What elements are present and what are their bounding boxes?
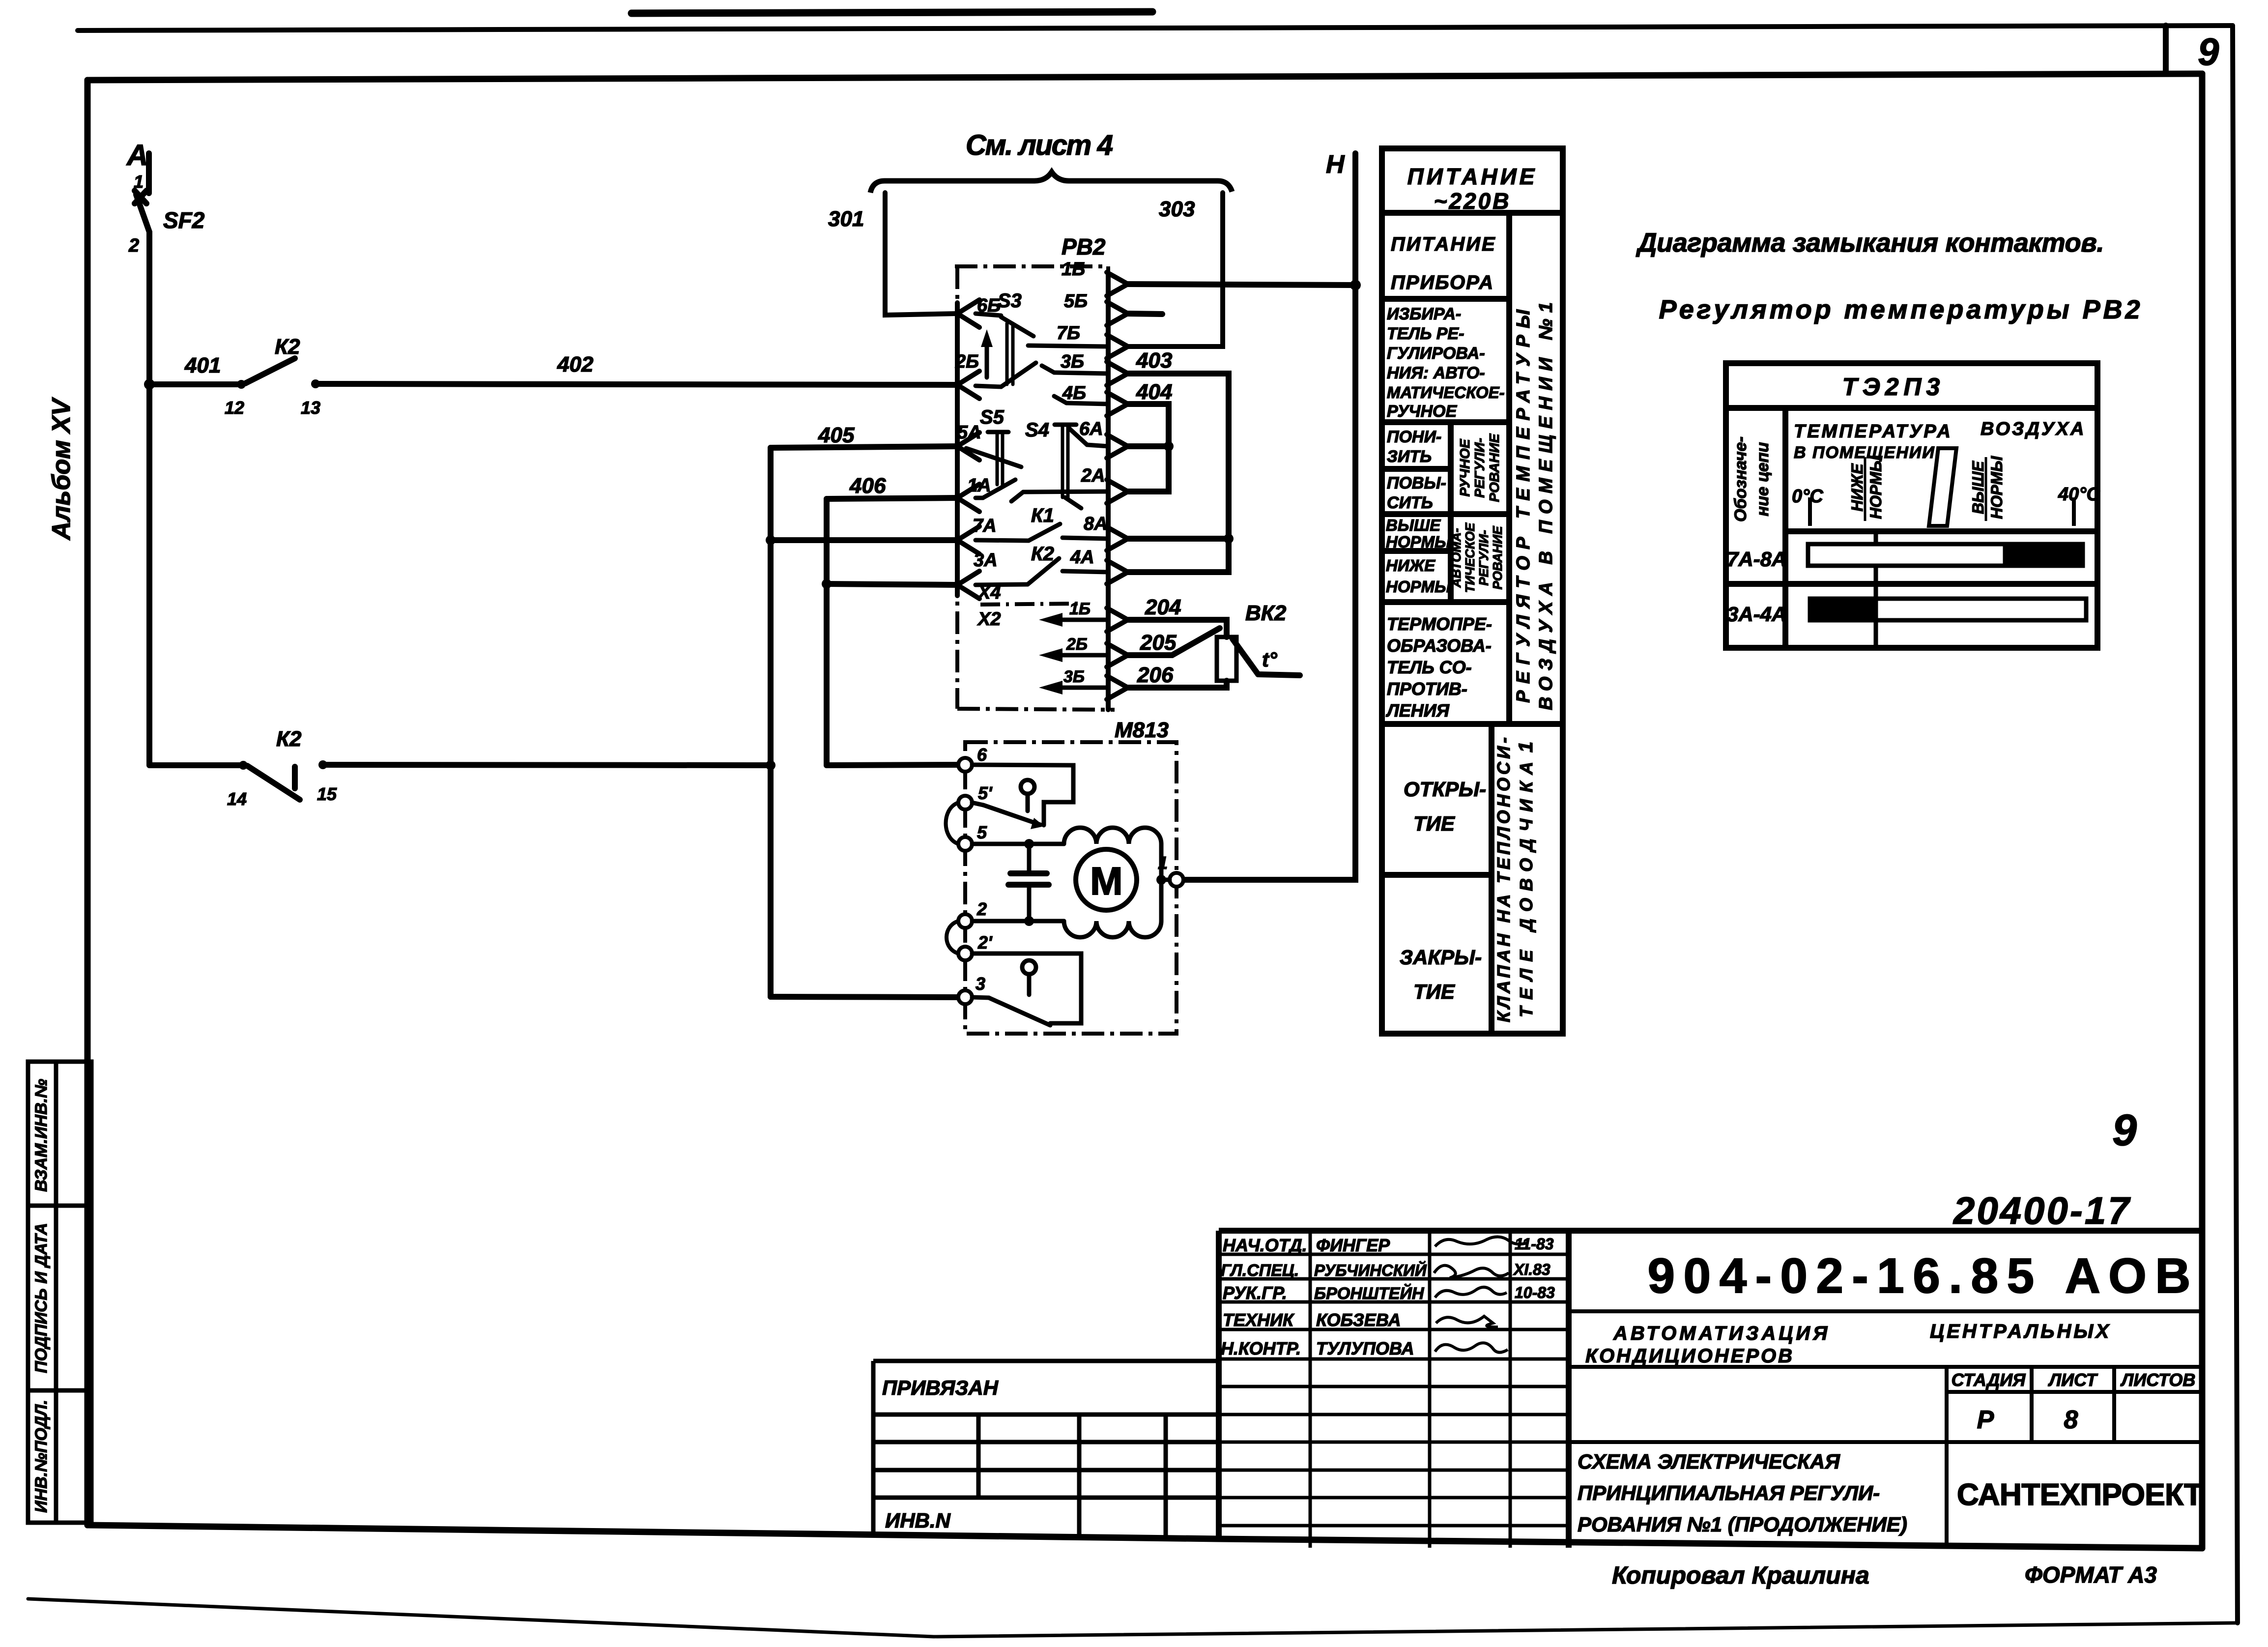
svg-text:2Б: 2Б bbox=[1066, 635, 1088, 654]
wire 4Б / 404 bbox=[1126, 404, 1169, 491]
7Б inner stub bbox=[1028, 346, 1108, 347]
РВ2 connector edge lines bbox=[957, 275, 1108, 710]
junction 405/7А bbox=[766, 535, 775, 545]
wire 405 stub bbox=[771, 446, 957, 448]
svg-text:САНТЕХПРОЕКТ: САНТЕХПРОЕКТ bbox=[1957, 1478, 2203, 1512]
svg-text:5Б: 5Б bbox=[1064, 291, 1088, 312]
РВ2 right side wiring bbox=[1126, 284, 1355, 572]
wire 5Б stub bbox=[1126, 314, 1162, 314]
capacitor bbox=[1008, 839, 1049, 926]
svg-text:3А: 3А bbox=[974, 550, 998, 571]
svg-text:3Б: 3Б bbox=[1061, 351, 1084, 372]
svg-text:3А-4А: 3А-4А bbox=[1727, 603, 1786, 626]
svg-text:НОРМЫ: НОРМЫ bbox=[1386, 533, 1451, 551]
contact К1 blade bbox=[1029, 524, 1060, 541]
svg-text:Р: Р bbox=[1977, 1406, 1994, 1434]
sensor circuit 204/205/206 bbox=[1126, 620, 1300, 688]
svg-text:Копировал Краилина: Копировал Краилина bbox=[1612, 1561, 1869, 1589]
РВ2 right connector chevrons bbox=[1107, 272, 1128, 699]
svg-text:ТЕРМОПРЕ-: ТЕРМОПРЕ- bbox=[1387, 614, 1492, 634]
wire 3А bbox=[827, 584, 957, 585]
svg-text:СИТЬ: СИТЬ bbox=[1387, 493, 1433, 512]
svg-text:НОРМЫ: НОРМЫ bbox=[1867, 456, 1885, 519]
М813 enclosure dash-dot bbox=[965, 742, 1177, 1034]
svg-text:402: 402 bbox=[557, 352, 594, 376]
svg-text:ГЛ.СПЕЦ.: ГЛ.СПЕЦ. bbox=[1221, 1261, 1299, 1280]
svg-text:7Б: 7Б bbox=[1057, 323, 1080, 344]
wire from SF2 pin 2 down to bottom rail bbox=[149, 232, 243, 765]
2Б selector blade bbox=[1001, 363, 1036, 387]
svg-text:М: М bbox=[1090, 859, 1123, 903]
resistor ВК2 body bbox=[1217, 637, 1236, 681]
left column attribute boxes bbox=[28, 1062, 91, 1523]
svg-text:301: 301 bbox=[828, 207, 864, 231]
svg-text:t°: t° bbox=[1262, 648, 1278, 671]
svg-text:12: 12 bbox=[225, 398, 244, 418]
contact K2 14-15 terminal dots bbox=[239, 761, 248, 770]
wire to M813 terminal 6 bbox=[827, 765, 959, 765]
svg-text:КОБЗЕВА: КОБЗЕВА bbox=[1316, 1310, 1401, 1330]
contact К2 blade bbox=[1028, 558, 1059, 584]
svg-text:РУБЧИНСКИЙ: РУБЧИНСКИЙ bbox=[1314, 1261, 1427, 1279]
М813 terminals bbox=[958, 758, 1183, 1004]
sensor feed arrows bbox=[1039, 613, 1109, 694]
svg-text:ВЫШЕ: ВЫШЕ bbox=[1386, 516, 1441, 534]
svg-text:К2: К2 bbox=[1031, 543, 1054, 565]
svg-text:ТИЕ: ТИЕ bbox=[1413, 812, 1456, 835]
svg-text:НОРМЫ: НОРМЫ bbox=[1386, 578, 1451, 596]
selector direction arrow at 2Б bbox=[985, 342, 989, 377]
S3 linkage bars bbox=[1005, 323, 1009, 384]
svg-text:ТЕМПЕРАТУРА: ТЕМПЕРАТУРА bbox=[1794, 421, 1952, 442]
svg-text:ОТКРЫ-: ОТКРЫ- bbox=[1404, 778, 1486, 801]
svg-text:ЛЕНИЯ: ЛЕНИЯ bbox=[1385, 700, 1450, 721]
svg-text:3: 3 bbox=[976, 974, 985, 994]
svg-text:ИНВ.N: ИНВ.N bbox=[885, 1509, 951, 1532]
drawing frame top edge bbox=[87, 74, 2202, 80]
svg-text:ние цепи: ние цепи bbox=[1753, 442, 1772, 516]
Привязан table bbox=[873, 1361, 1219, 1539]
svg-text:Регулятор температуры РВ: Регулятор температуры РВ2 bbox=[1659, 295, 2143, 324]
svg-text:ЛИСТ: ЛИСТ bbox=[2047, 1370, 2098, 1390]
norm divider line bbox=[1874, 531, 1878, 648]
svg-text:РОВАНИЕ: РОВАНИЕ bbox=[1490, 526, 1505, 590]
S4 crossbar bbox=[1055, 423, 1076, 427]
wire 6А bbox=[1126, 443, 1169, 449]
svg-text:406: 406 bbox=[849, 474, 886, 498]
svg-text:Н: Н bbox=[1326, 150, 1345, 179]
svg-text:XI.83: XI.83 bbox=[1513, 1261, 1550, 1278]
svg-text:МАТИЧЕСКОЕ-: МАТИЧЕСКОЕ- bbox=[1387, 383, 1505, 402]
lower limit switch bbox=[972, 954, 1081, 1025]
2Б common wire bbox=[976, 386, 1001, 387]
svg-text:ПИТАНИЕ: ПИТАНИЕ bbox=[1391, 233, 1496, 255]
svg-text:К2: К2 bbox=[275, 335, 300, 359]
svg-text:ЦЕНТРАЛЬНЫХ: ЦЕНТРАЛЬНЫХ bbox=[1930, 1321, 2111, 1342]
S4 stem bbox=[1061, 425, 1064, 497]
sheet top scan artifact bar bbox=[632, 12, 1152, 13]
stamp signatures bbox=[1434, 1237, 1528, 1352]
svg-text:1Б: 1Б bbox=[1062, 259, 1085, 280]
svg-text:ТЭ2П3: ТЭ2П3 bbox=[1842, 373, 1945, 401]
svg-text:Обозначе-: Обозначе- bbox=[1731, 436, 1750, 522]
wire 205 bbox=[1126, 652, 1172, 658]
svg-text:ЗАКРЫ-: ЗАКРЫ- bbox=[1400, 946, 1482, 969]
junction 403/8А bbox=[1224, 534, 1234, 544]
upper limit switch bbox=[972, 765, 1073, 829]
svg-text:303: 303 bbox=[1159, 197, 1195, 221]
sheet top edge line bbox=[78, 26, 2233, 30]
stamp outer box bbox=[1219, 1231, 2202, 1548]
svg-text:40°С: 40°С bbox=[2058, 484, 2100, 505]
2А inner wire bbox=[1023, 491, 1108, 492]
S5 blade from 5А bbox=[966, 448, 1021, 467]
svg-text:ФИНГЕР: ФИНГЕР bbox=[1316, 1235, 1390, 1255]
wire 406 stub bbox=[827, 498, 957, 499]
svg-text:1Б: 1Б bbox=[1069, 600, 1091, 618]
svg-text:0°С: 0°С bbox=[1792, 486, 1823, 507]
svg-text:ЛИСТОВ: ЛИСТОВ bbox=[2120, 1370, 2196, 1390]
net N vertical bbox=[1177, 153, 1361, 880]
svg-text:М813: М813 bbox=[1115, 718, 1169, 742]
svg-text:6: 6 bbox=[977, 745, 987, 765]
svg-text:РОВАНИЕ: РОВАНИЕ bbox=[1487, 433, 1502, 502]
svg-text:РВ2: РВ2 bbox=[1062, 234, 1106, 260]
svg-text:РУЧНОЕ: РУЧНОЕ bbox=[1457, 438, 1472, 496]
3А inner wire bbox=[976, 584, 1028, 585]
sheet right edge line bbox=[2233, 26, 2238, 1623]
page number box top right bbox=[2163, 26, 2169, 74]
svg-text:ПРИВЯЗАН: ПРИВЯЗАН bbox=[882, 1376, 999, 1399]
svg-text:ТИЧЕСКОЕ: ТИЧЕСКОЕ bbox=[1463, 522, 1477, 593]
svg-text:К1: К1 bbox=[1031, 505, 1054, 526]
svg-text:ПОДПИСЬ И ДАТА: ПОДПИСЬ И ДАТА bbox=[32, 1223, 51, 1373]
function table grid bbox=[1382, 148, 1563, 1034]
junction 404/6А bbox=[1164, 441, 1174, 451]
svg-text:РОВАНИЯ №1 (ПРОДОЛЖЕНИЕ): РОВАНИЯ №1 (ПРОДОЛЖЕНИЕ) bbox=[1578, 1513, 1907, 1536]
svg-text:2Б: 2Б bbox=[955, 351, 979, 372]
node A terminal stub bbox=[146, 153, 152, 193]
S4 stem foot link bbox=[1065, 497, 1081, 508]
setpoint parallelogram bbox=[1929, 448, 1956, 526]
wire 8А bbox=[1126, 536, 1229, 542]
svg-text:20400-17: 20400-17 bbox=[1952, 1189, 2131, 1232]
drawing frame bottom edge bbox=[87, 1525, 2202, 1548]
svg-text:~220В: ~220В bbox=[1434, 188, 1511, 214]
svg-text:206: 206 bbox=[1137, 663, 1174, 687]
wire 401 bbox=[149, 381, 241, 387]
svg-text:К2: К2 bbox=[276, 727, 302, 751]
contact K2 12-13 terminal dots bbox=[237, 380, 246, 389]
stamp dividers right part bbox=[1569, 1311, 2202, 1548]
РВ2 interior switch gear bbox=[966, 314, 1108, 585]
drawing frame left edge bbox=[85, 80, 91, 1525]
svg-text:А: А bbox=[126, 139, 148, 172]
svg-text:КОНДИЦИОНЕРОВ: КОНДИЦИОНЕРОВ bbox=[1585, 1345, 1794, 1367]
svg-text:904-02-16.85 АОВ: 904-02-16.85 АОВ bbox=[1648, 1248, 2191, 1303]
wire 301 bbox=[885, 193, 957, 315]
svg-text:15: 15 bbox=[317, 784, 337, 804]
svg-text:ПРИБОРА: ПРИБОРА bbox=[1391, 272, 1494, 293]
svg-text:1: 1 bbox=[1515, 742, 1537, 752]
svg-text:204: 204 bbox=[1145, 595, 1181, 619]
table ТЭ2П3 grid bbox=[1726, 363, 2097, 648]
РВ2 left connector chevrons bbox=[957, 300, 979, 599]
svg-text:ИЗБИРА-: ИЗБИРА- bbox=[1387, 305, 1461, 323]
svg-text:ПИТАНИЕ: ПИТАНИЕ bbox=[1407, 164, 1538, 189]
svg-text:ВЗАМ.ИНВ.№: ВЗАМ.ИНВ.№ bbox=[32, 1079, 51, 1192]
svg-text:ВК2: ВК2 bbox=[1245, 601, 1287, 625]
junction at wire 401 bbox=[144, 379, 155, 390]
3Б inner stub bbox=[1054, 373, 1108, 374]
svg-text:404: 404 bbox=[1136, 380, 1172, 404]
net 405 riser bbox=[768, 448, 774, 997]
S5 crossbar bbox=[988, 430, 1008, 434]
svg-text:НАЧ.ОТД.: НАЧ.ОТД. bbox=[1223, 1235, 1307, 1255]
svg-text:205: 205 bbox=[1140, 631, 1177, 655]
svg-text:См. лист 4: См. лист 4 bbox=[966, 129, 1113, 161]
4А inner stub bbox=[1062, 571, 1108, 572]
wire to M813 terminal 3 bbox=[771, 997, 959, 997]
svg-text:401: 401 bbox=[184, 353, 221, 377]
contact K2 12-13 blade bbox=[245, 358, 295, 383]
svg-text:11-83: 11-83 bbox=[1515, 1235, 1554, 1253]
svg-text:14: 14 bbox=[227, 789, 247, 809]
svg-text:ТИЕ: ТИЕ bbox=[1413, 980, 1456, 1003]
stamp signature grid bbox=[1219, 1231, 1569, 1548]
svg-text:2А: 2А bbox=[1081, 465, 1105, 486]
fraction bar ВЫШЕ НОРМЫ bbox=[1985, 457, 1987, 521]
motor supply wires and windings bbox=[972, 828, 1170, 937]
svg-text:405: 405 bbox=[818, 423, 855, 447]
svg-text:Диаграмма замыкания контакто: Диаграмма замыкания контактов. bbox=[1636, 228, 2107, 258]
svg-text:ПОВЫ-: ПОВЫ- bbox=[1387, 474, 1446, 492]
svg-text:6А: 6А bbox=[1079, 419, 1103, 439]
svg-text:ОБРАЗОВА-: ОБРАЗОВА- bbox=[1387, 636, 1492, 656]
sheet bottom edge line bbox=[28, 1599, 2236, 1637]
svg-text:ТУЛУПОВА: ТУЛУПОВА bbox=[1316, 1338, 1414, 1358]
svg-text:РУЧНОЕ: РУЧНОЕ bbox=[1387, 402, 1457, 421]
svg-text:2: 2 bbox=[976, 899, 987, 919]
svg-text:9: 9 bbox=[2198, 30, 2219, 73]
svg-text:S3: S3 bbox=[998, 290, 1022, 312]
svg-text:ФОРМАТ А3: ФОРМАТ А3 bbox=[2025, 1562, 2157, 1588]
svg-text:ПРОТИВ-: ПРОТИВ- bbox=[1387, 679, 1467, 699]
wire 206 bbox=[1126, 681, 1227, 688]
svg-text:X2: X2 bbox=[977, 609, 1001, 630]
svg-text:10-83: 10-83 bbox=[1515, 1284, 1555, 1301]
1А wire and blade bbox=[976, 496, 983, 500]
breaker SF2 cross mark bbox=[135, 191, 146, 203]
svg-text:АВТОМАТИЗАЦИЯ: АВТОМАТИЗАЦИЯ bbox=[1613, 1323, 1830, 1344]
terminal jumper 2-2' bbox=[947, 921, 958, 954]
brace see sheet 4 bbox=[870, 172, 1232, 193]
svg-text:7А: 7А bbox=[973, 516, 997, 536]
junction 406/3А bbox=[822, 579, 832, 589]
4Б inner stub bbox=[1066, 403, 1108, 404]
wire 303 bbox=[1126, 193, 1223, 347]
svg-text:ТЕЛЬ РЕ-: ТЕЛЬ РЕ- bbox=[1387, 324, 1464, 343]
svg-text:ТЕЛЬ СО-: ТЕЛЬ СО- bbox=[1387, 657, 1472, 677]
svg-text:5А: 5А bbox=[957, 422, 981, 443]
svg-text:1: 1 bbox=[134, 172, 144, 192]
РВ2 enclosure dash-dot bbox=[955, 266, 1115, 710]
bottom rail wire from K2 15 to net 405 riser bbox=[323, 765, 771, 765]
svg-text:S5: S5 bbox=[980, 406, 1005, 428]
svg-text:2': 2' bbox=[977, 932, 993, 953]
junction 405/bottom rail bbox=[766, 760, 775, 770]
wire 402 bbox=[316, 384, 957, 385]
svg-text:ПРИНЦИПИАЛЬНАЯ РЕГУЛИ-: ПРИНЦИПИАЛЬНАЯ РЕГУЛИ- bbox=[1578, 1481, 1880, 1504]
svg-text:ТЕЛЕ ДОВОДЧИКА: ТЕЛЕ ДОВОДЧИКА bbox=[1516, 762, 1536, 1017]
net 406 riser bbox=[824, 499, 830, 765]
motor М bbox=[1076, 849, 1137, 910]
ВК2 wiper arm bbox=[1172, 628, 1220, 655]
svg-text:3Б: 3Б bbox=[1063, 667, 1085, 686]
svg-text:НИЖЕ: НИЖЕ bbox=[1848, 463, 1866, 512]
svg-text:АВТОМА-: АВТОМА- bbox=[1449, 528, 1464, 588]
svg-text:8: 8 bbox=[2064, 1406, 2078, 1434]
svg-text:НОРМЫ: НОРМЫ bbox=[1988, 456, 2006, 519]
svg-text:РЕГУЛИ-: РЕГУЛИ- bbox=[1476, 530, 1491, 585]
scale tick 40 bbox=[2072, 497, 2076, 526]
bar 7А-8А bbox=[1808, 544, 2083, 566]
fraction bar НИЖЕ НОРМЫ bbox=[1864, 457, 1866, 521]
svg-text:Н.КОНТР.: Н.КОНТР. bbox=[1221, 1338, 1301, 1358]
6А inner blade bbox=[1069, 429, 1087, 445]
svg-text:ИНВ.№ПОДЛ.: ИНВ.№ПОДЛ. bbox=[32, 1400, 51, 1513]
svg-text:РУК.ГР.: РУК.ГР. bbox=[1223, 1283, 1287, 1303]
svg-text:8А: 8А bbox=[1084, 514, 1108, 534]
svg-text:S4: S4 bbox=[1025, 419, 1049, 441]
svg-text:РЕГУЛИ-: РЕГУЛИ- bbox=[1472, 438, 1487, 498]
svg-text:ВЫШЕ: ВЫШЕ bbox=[1969, 460, 1987, 514]
svg-text:СХЕМА ЭЛЕКТРИЧЕСКАЯ: СХЕМА ЭЛЕКТРИЧЕСКАЯ bbox=[1578, 1450, 1840, 1473]
drawing frame right edge bbox=[2199, 74, 2206, 1548]
7А inner wire bbox=[976, 540, 1029, 541]
svg-text:9: 9 bbox=[2112, 1106, 2137, 1155]
S5 stem bbox=[996, 432, 999, 485]
8А inner stub bbox=[1062, 538, 1108, 539]
svg-text:13: 13 bbox=[301, 398, 320, 418]
breaker SF2 blade bbox=[136, 195, 149, 232]
svg-text:ВОЗДУХА В ПОМЕЩЕНИИ №1: ВОЗДУХА В ПОМЕЩЕНИИ №1 bbox=[1536, 302, 1556, 710]
svg-text:4А: 4А bbox=[1070, 547, 1094, 568]
connector X4/X2 divider bbox=[980, 604, 1079, 605]
svg-text:ЗИТЬ: ЗИТЬ bbox=[1387, 447, 1432, 466]
S3 common wire from 6Б bbox=[976, 314, 1001, 316]
svg-text:БРОНШТЕЙН: БРОНШТЕЙН bbox=[1314, 1284, 1425, 1303]
svg-text:НИЖЕ: НИЖЕ bbox=[1386, 556, 1435, 575]
wire 204 bbox=[1126, 620, 1227, 637]
terminal jumper 5'-5 bbox=[946, 803, 959, 844]
svg-text:SF2: SF2 bbox=[163, 207, 205, 233]
svg-text:403: 403 bbox=[1136, 348, 1172, 373]
svg-text:НИЯ: АВТО-: НИЯ: АВТО- bbox=[1387, 364, 1485, 382]
wire 1Б to N bbox=[1126, 284, 1355, 285]
svg-text:ВОЗДУХА: ВОЗДУХА bbox=[1981, 419, 2086, 439]
svg-text:Альбом XV: Альбом XV bbox=[47, 397, 76, 541]
svg-text:ГУЛИРОВА-: ГУЛИРОВА- bbox=[1387, 344, 1485, 363]
thermistor strike bbox=[1233, 639, 1258, 674]
S3 blade bbox=[1001, 317, 1034, 336]
scale tick 0 bbox=[1808, 497, 1812, 526]
svg-text:ПОНИ-: ПОНИ- bbox=[1387, 428, 1441, 446]
svg-text:СТАДИЯ: СТАДИЯ bbox=[1952, 1370, 2026, 1390]
wire 3Б / 403 bbox=[1126, 374, 1229, 572]
bar 3А-4А bbox=[1810, 599, 2086, 620]
contact K2 14-15 blade bbox=[247, 766, 300, 800]
wire 7А bbox=[771, 537, 957, 543]
svg-text:7А-8А: 7А-8А bbox=[1727, 548, 1786, 571]
svg-text:2: 2 bbox=[128, 235, 139, 256]
svg-text:5': 5' bbox=[978, 783, 993, 803]
svg-text:5: 5 bbox=[977, 822, 987, 842]
svg-text:ТЕХНИК: ТЕХНИК bbox=[1223, 1310, 1295, 1330]
